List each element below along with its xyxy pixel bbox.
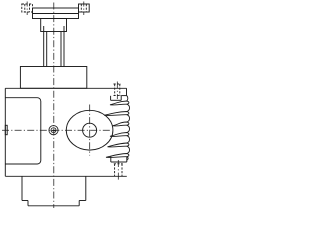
column outer wall right [63, 26, 65, 67]
body top edge [5, 87, 126, 89]
spring coils [104, 96, 129, 161]
base left edge [27, 201, 29, 206]
spring cap lower shelf [111, 99, 122, 101]
hidden square boss below seat (dashed) [114, 164, 123, 177]
coil link 3 [127, 125, 130, 132]
upper block [41, 19, 67, 32]
spring cap right edge [126, 88, 128, 95]
lower block right ledge [79, 200, 86, 202]
top flange [33, 8, 79, 19]
spring coil 5 [108, 143, 129, 147]
spring seat top [111, 161, 127, 163]
column inner wall left [46, 32, 48, 67]
horizontal centerline [2, 129, 112, 131]
left stud nut (hidden, dashed) [22, 4, 33, 12]
left stud centerline [26, 2, 28, 16]
body left edge [4, 88, 6, 176]
lower block left ledge [22, 200, 28, 202]
coil link 2 [127, 115, 130, 122]
column outer wall left [43, 26, 45, 67]
spring coil 1 [110, 101, 129, 105]
spring seat left edge [110, 157, 112, 163]
coil link 1 [127, 104, 130, 111]
small circle bar [52, 130, 56, 132]
main vertical centerline [53, 3, 55, 209]
small circle inner [51, 128, 56, 133]
spring cap step [120, 96, 122, 101]
base bottom [28, 205, 79, 207]
lower block left edge [21, 176, 23, 200]
lower block right edge [85, 176, 87, 200]
right stud nut [79, 4, 90, 12]
flange mid line [33, 13, 79, 15]
spring cap upper shelf [121, 95, 126, 97]
big bore ellipse [66, 110, 113, 150]
body bottom edge [5, 175, 127, 177]
column inner wall right [60, 32, 62, 67]
spring seat right edge [126, 157, 128, 162]
inner chamber (rounded right corners) [5, 98, 41, 164]
spring coil 2 [104, 112, 129, 116]
bore inner circle [83, 123, 97, 137]
left port boss [5, 125, 7, 134]
base right edge [78, 201, 80, 206]
right stud centerline [83, 2, 85, 16]
coil to seat link [127, 157, 128, 161]
cap to coil link [127, 96, 128, 102]
bottom boss centerline [117, 160, 119, 180]
bore vertical centerline [89, 105, 91, 156]
spring coil 6 [106, 154, 129, 158]
hidden bolt top right (dashed) [114, 84, 122, 96]
coil link 4 [127, 136, 130, 143]
spring cap left edge [110, 96, 112, 101]
coil link 5 [127, 146, 130, 153]
mounting plate [20, 67, 86, 89]
spring coil 4 [110, 133, 129, 137]
small circle outer [49, 126, 58, 135]
top bolt centerline [116, 82, 118, 100]
spring coil 3 [113, 122, 129, 126]
